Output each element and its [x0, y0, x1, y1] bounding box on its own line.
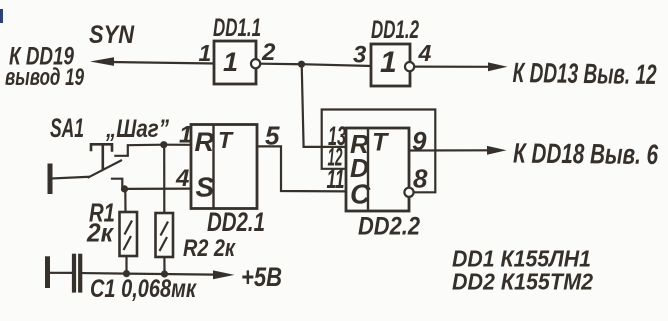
svg-text:вывод 19: вывод 19 — [5, 64, 84, 91]
wire: junction down to DD2.2 pin 13 — [302, 64, 346, 147]
wire: junction C to DD2.1 pin 4 — [125, 188, 192, 190]
wire: junction B to DD2.1 pin 1 — [164, 144, 191, 146]
svg-text:2к: 2к — [86, 218, 115, 248]
svg-text:1: 1 — [223, 47, 238, 77]
ground terminal (C1 side) — [45, 259, 50, 286]
wire: junction C down to R1 — [124, 189, 126, 212]
svg-text:11: 11 — [327, 164, 345, 194]
resistor R2 — [156, 213, 174, 257]
inverter DD1.2 — [371, 44, 414, 86]
wire: junction B down to R2 — [163, 145, 165, 213]
wire: DD2.1 pin 5 to DD2.2 pin 11 — [257, 146, 346, 191]
svg-text:4: 4 — [418, 40, 432, 66]
switch SA1 lower fixed contact — [112, 179, 122, 189]
svg-text:К DD18 Выв. 6: К DD18 Выв. 6 — [513, 138, 659, 171]
svg-text:SA1: SA1 — [50, 113, 84, 143]
capacitor C1 plates — [72, 256, 76, 291]
resistor R1 — [120, 212, 138, 256]
svg-text:S: S — [196, 172, 215, 203]
junction node C (S input / R1) — [121, 185, 128, 192]
wire: terminal to switch contact — [52, 177, 89, 179]
wire: DD1.1 output to junction — [261, 63, 301, 66]
arrow to К DD18 — [487, 146, 507, 155]
svg-text:R: R — [195, 127, 215, 157]
junction: R2 on rail — [161, 270, 168, 277]
junction: R1 on rail — [123, 270, 130, 277]
svg-text:R2 2к: R2 2к — [183, 235, 237, 262]
wire: DD2.2 pin 9 to К DD18 arrow — [409, 149, 489, 151]
svg-text:4: 4 — [175, 165, 189, 192]
svg-text:3: 3 — [353, 42, 367, 69]
svg-text:8: 8 — [413, 164, 428, 194]
ground terminal (switch SA1 common) — [48, 166, 53, 192]
wire: +5V rail — [83, 273, 215, 275]
flip-flop DD2.1 — [191, 125, 257, 209]
arrow +5V — [213, 270, 235, 279]
svg-text:1: 1 — [380, 46, 397, 79]
svg-text:1: 1 — [179, 122, 192, 149]
arrow to К DD19 — [90, 57, 114, 66]
wire: SYN output to К DD19 — [110, 62, 214, 64]
arrow to К DD13 — [488, 62, 508, 71]
wire: R2 bottom to +5V rail — [163, 257, 165, 274]
wire: terminal to C1 — [50, 272, 73, 274]
switch SA1 moving contact — [89, 161, 122, 178]
svg-text:SYN: SYN — [89, 21, 135, 49]
junction node A (DD1.1 out) — [298, 61, 305, 68]
svg-text:„Шаг”: „Шаг” — [105, 115, 169, 143]
flip-flop DD2.2 — [346, 128, 414, 211]
wire: DD1.2 output to К DD13 arrow — [414, 65, 490, 67]
svg-text:9: 9 — [412, 126, 427, 156]
svg-text:1: 1 — [199, 40, 212, 66]
wire: feedback DD2.2 pin 8 to pin 12 (D) — [322, 110, 436, 193]
switch SA1 actuator — [91, 144, 112, 150]
svg-text:DD2.1: DD2.1 — [207, 207, 265, 237]
junction node B (R input / R2) — [160, 141, 167, 148]
switch SA1 upper fixed contact seat — [115, 145, 163, 156]
svg-text:С1 0,068мк: С1 0,068мк — [90, 275, 197, 303]
svg-text:C: C — [350, 179, 371, 210]
svg-text:T: T — [218, 127, 234, 153]
svg-text:К DD13 Выв. 12: К DD13 Выв. 12 — [512, 57, 657, 90]
svg-text:5: 5 — [265, 121, 280, 151]
svg-text:2: 2 — [261, 39, 276, 66]
wire: junction to DD1.2 input — [302, 64, 372, 66]
svg-text:DD1.1: DD1.1 — [213, 14, 261, 42]
svg-text:DD1.2: DD1.2 — [371, 16, 419, 44]
svg-text:+5В: +5В — [241, 262, 282, 292]
svg-text:DD2.2: DD2.2 — [358, 213, 420, 241]
inverter DD1.1 — [214, 41, 260, 84]
svg-text:DD2 К155ТМ2: DD2 К155ТМ2 — [452, 269, 593, 295]
wire: R1 bottom to +5V rail — [125, 256, 127, 274]
